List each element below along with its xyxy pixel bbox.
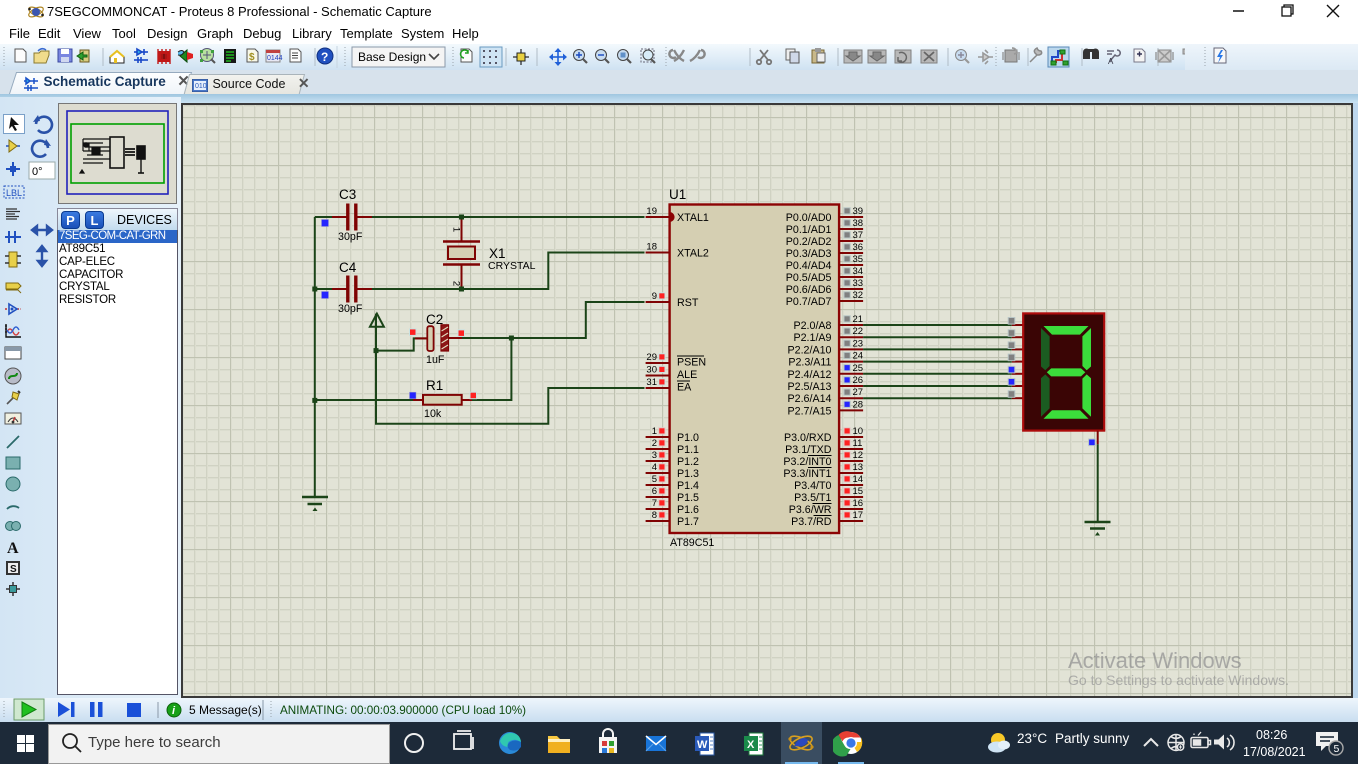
wire P2.3 to display	[863, 354, 1023, 362]
segment a (lit)	[1044, 326, 1089, 335]
pin 36 P0.3/AD3	[786, 242, 863, 260]
node C4 rail junction	[312, 287, 317, 292]
chip U1 AT89C51	[670, 205, 840, 534]
capacitor C4	[322, 260, 373, 315]
svg-text:0°: 0°	[32, 166, 43, 178]
wire P2.1 to display	[863, 330, 1023, 338]
pin 21 P2.0/A8	[793, 314, 863, 332]
svg-text:A: A	[1108, 57, 1114, 66]
pin 11 P3.1/TXD	[785, 438, 863, 456]
wire P2.4 to display	[863, 366, 1023, 374]
pin 16 P3.6/WR	[789, 498, 863, 516]
wire power to C2	[376, 338, 427, 350]
base design combo	[352, 47, 445, 67]
display cathode pin	[1089, 431, 1098, 446]
pin 15 P3.5/T1	[794, 486, 863, 504]
pin 30 ALE	[646, 365, 698, 382]
capacitor C2	[410, 312, 465, 366]
node power junction	[374, 348, 379, 353]
wire power rail down	[376, 351, 645, 424]
pin 22 P2.1/A9	[793, 326, 863, 344]
weather	[985, 730, 1015, 760]
wire C2 to RST	[462, 302, 645, 338]
wire C3 left vertical rail	[314, 217, 316, 497]
pin 28 P2.7/A15	[788, 399, 864, 417]
pin 25 P2.4/A12	[788, 363, 864, 381]
resistor R1	[410, 378, 477, 420]
segment f (off)	[1041, 328, 1050, 370]
svg-text:?: ?	[321, 50, 328, 64]
pin 32 P0.7/AD7	[786, 290, 863, 308]
wire C4 row	[315, 288, 332, 290]
pin 29 PSEN	[646, 352, 707, 369]
pin 24 P2.3/A11	[788, 351, 863, 369]
pin 17 P3.7/RD	[791, 510, 863, 528]
segment g (lit)	[1047, 368, 1086, 376]
start	[17, 735, 34, 752]
left tool palette column 1	[0, 0, 28, 700]
pin 18 XTAL2	[646, 242, 709, 260]
inactive tab: Source Code	[183, 74, 305, 97]
pin 19 XTAL1	[646, 206, 709, 224]
pin 35 P0.4/AD4	[786, 254, 863, 272]
devices list	[57, 230, 178, 695]
new/open/save/close icons	[15, 49, 89, 63]
explorer	[541, 725, 577, 761]
svg-text:5 Message(s): 5 Message(s)	[189, 703, 262, 717]
pin 3 P1.2	[646, 450, 699, 468]
pin 2 P1.1	[646, 438, 699, 456]
pin 1 P1.0	[646, 426, 699, 444]
property tools icons	[1048, 47, 1198, 67]
wire R1 left	[315, 399, 413, 401]
pin 5 P1.4	[646, 474, 699, 492]
chrome active	[833, 725, 869, 761]
edit toolbar icons	[669, 48, 1041, 64]
wire P2.5 to display	[863, 379, 1023, 387]
pin 8 P1.7	[646, 510, 699, 528]
crystal X1	[443, 217, 536, 289]
mail	[638, 725, 674, 761]
wire P2.0 to display	[863, 318, 1023, 326]
pin 14 P3.4/T0	[794, 474, 863, 492]
wire P2.2 to display	[863, 342, 1023, 350]
node crystal bottom junction	[459, 287, 464, 292]
store	[590, 725, 626, 761]
cortana	[396, 725, 432, 761]
task view	[446, 725, 482, 761]
edge	[492, 725, 528, 761]
pin 37 P0.2/AD2	[786, 230, 863, 248]
svg-text:Base Design: Base Design	[358, 50, 426, 64]
active tab: Schematic Capture	[8, 72, 192, 97]
pin 34 P0.5/AD5	[786, 266, 863, 284]
svg-text:5: 5	[1334, 743, 1340, 755]
7-segment display body	[1023, 313, 1104, 430]
ground left	[302, 497, 328, 511]
proteus active	[781, 722, 822, 764]
pin 12 P3.2/INT0	[783, 450, 863, 468]
svg-text:S: S	[10, 564, 17, 575]
pin 38 P0.1/AD1	[786, 218, 863, 236]
svg-text:ANIMATING: 00:00:03.900000 (CP: ANIMATING: 00:00:03.900000 (CPU load 10%…	[280, 704, 526, 717]
svg-text:010: 010	[195, 83, 207, 90]
ground right	[1085, 522, 1111, 536]
capacitor C3	[322, 187, 373, 243]
node crystal top junction	[459, 215, 464, 220]
pin 26 P2.5/A13	[788, 375, 864, 393]
pin 31 EA	[646, 377, 693, 394]
devices header	[57, 208, 178, 230]
wire cathode to ground	[1097, 444, 1099, 521]
word	[688, 725, 724, 761]
segment c (lit)	[1082, 374, 1091, 416]
svg-text:$: $	[249, 52, 255, 63]
pin 4 P1.3	[646, 462, 699, 480]
view toolbar icons	[461, 47, 655, 67]
wire C3 row	[315, 216, 332, 218]
pin 27 P2.6/A14	[788, 387, 864, 405]
node R1 rail junction	[312, 398, 317, 403]
svg-text:0144: 0144	[267, 55, 283, 62]
svg-text:A: A	[7, 540, 19, 557]
overview window	[58, 103, 177, 204]
wire P2.6 to display	[863, 391, 1023, 399]
segment d (lit)	[1044, 410, 1089, 419]
svg-text:X: X	[747, 739, 755, 751]
node C2/R1 junction	[509, 336, 514, 341]
pin 39 P0.0/AD0	[786, 206, 863, 224]
pin 10 P3.0/RXD	[784, 426, 863, 444]
pin 23 P2.2/A10	[788, 338, 864, 356]
wire R1 riser	[472, 338, 511, 400]
power terminal arrow	[370, 314, 384, 351]
left palette column 2 (orientation)	[0, 0, 1358, 1]
svg-text:W: W	[697, 739, 708, 751]
svg-text:LBL: LBL	[6, 188, 22, 198]
home/schem/pcb icons	[110, 48, 333, 64]
segment e (off)	[1041, 374, 1050, 416]
pin 33 P0.6/AD6	[786, 278, 863, 296]
pin 13 P3.3/INT1	[783, 462, 863, 480]
segment b (lit)	[1082, 328, 1091, 370]
pin 7 P1.6	[646, 498, 699, 516]
pin 9 RST	[646, 291, 699, 309]
pin 6 P1.5	[646, 486, 699, 504]
excel	[737, 725, 773, 761]
